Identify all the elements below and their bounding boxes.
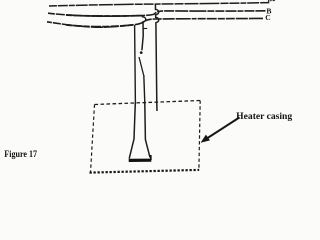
svg-text:Figure 17: Figure 17: [4, 149, 37, 159]
arrow pointing to casing: [206, 117, 240, 139]
heater casing dashed box: bottom edge (dense dots): [90, 170, 200, 173]
wire: line A end tick: [268, 0, 270, 3]
label A (cut off at top edge): [270, 0, 271, 1]
heater element: base bar: [129, 159, 152, 162]
wire: supply line C (bottom bus): [47, 18, 263, 27]
heater element: right side (tube + flare): [145, 103, 150, 157]
wire: drop from line C into casing: [134, 25, 137, 103]
arrowhead: [201, 135, 210, 143]
wire: line C thick sag overdraw: [66, 25, 133, 27]
heater casing dashed box: right edge: [199, 101, 200, 170]
switch lever (open): [139, 57, 144, 75]
switch contact dot: [140, 51, 143, 54]
svg-text:Heater casing: Heater casing: [236, 112, 292, 122]
heater element: left side (tube + flare): [129, 103, 135, 159]
svg-text:C: C: [265, 13, 270, 22]
wire: supply line B (middle bus): [48, 11, 266, 16]
heater element: right end hook: [150, 155, 152, 160]
wire: drop from line B with hop over C: [142, 16, 146, 51]
wire: supply line A (top bus): [49, 3, 269, 6]
wire: line B thick sag overdraw: [66, 15, 142, 16]
heater casing dashed box: top edge: [95, 101, 201, 105]
heater casing dashed box: left edge: [91, 105, 95, 173]
wire: B drop lower section into casing: [144, 75, 145, 103]
small hook artifact on B drop: [143, 27, 147, 29]
wire: drop from line A with crossover hops over B and C: [155, 4, 158, 111]
